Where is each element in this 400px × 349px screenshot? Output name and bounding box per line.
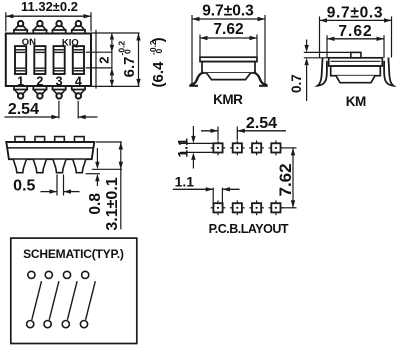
solder tip level line [86, 173, 100, 175]
PCB row pitch extension bottom [281, 207, 297, 209]
side view lead 3 [53, 160, 66, 173]
side view lid seam line [7, 147, 93, 149]
dimension line for 6.7 [138, 33, 140, 86]
switch symbol 1 bottom contact [27, 321, 34, 328]
svg-text:11.32±0.2: 11.32±0.2 [21, 0, 78, 14]
KMR extension line right of 7.62 [256, 34, 258, 56]
PCB pad row 2 position 2 [236, 200, 238, 215]
KM cover cap [329, 58, 383, 66]
extension line right of 11.32 [90, 12, 92, 31]
svg-text:7.62: 7.62 [338, 23, 372, 40]
svg-text:2: 2 [96, 57, 111, 64]
KM cap inner seam line [331, 60, 381, 62]
PCB pad height line bottom [180, 151, 213, 153]
PCB pad row 1 position 1 [217, 141, 219, 156]
KMR left extension line / foot edge [191, 15, 193, 84]
PCB pad row 2 position 3 [256, 200, 258, 215]
KMR extension line left of 7.62 [199, 34, 201, 56]
side view actuator knob 4 [75, 137, 85, 142]
KMR dimension line 7.62 [200, 37, 257, 39]
svg-text:2.54: 2.54 [8, 101, 39, 118]
switch symbol 1 top contact [28, 271, 35, 278]
extension line below pin 4 [77, 101, 79, 119]
dimension line 0.7 lower arrow [306, 65, 308, 101]
pin 3 bottom lead [53, 86, 66, 89]
side view body outline [6, 142, 94, 159]
side view body top extension line [96, 141, 122, 143]
slider actuator 2 [34, 46, 45, 74]
PCB pad row 1 position 3 [256, 141, 258, 156]
PCB dimension line 1.1 horizontal [173, 188, 213, 190]
svg-text:9.7±0.3: 9.7±0.3 [202, 2, 254, 19]
svg-text:3: 3 [56, 75, 63, 89]
switch symbol 3 bottom contact [62, 321, 69, 328]
svg-text:0.8: 0.8 [87, 193, 104, 215]
switch symbol 2 bottom contact [44, 321, 51, 328]
KM bottom chamfer [336, 76, 375, 83]
KM left J-lead [318, 58, 327, 86]
extension line left of lead tip [56, 175, 58, 196]
PCB extension above pad 1 [217, 127, 219, 141]
svg-text:4: 4 [75, 75, 82, 89]
extension line left of 11.32 [5, 12, 7, 31]
KMR left foot [189, 85, 198, 87]
KM body [331, 66, 381, 76]
pin 4 bottom lead [72, 86, 85, 89]
KM left extension line [319, 16, 321, 57]
svg-text:SCHEMATIC(TYP.): SCHEMATIC(TYP.) [23, 247, 124, 261]
KM dimension line 7.62 [327, 38, 384, 40]
KMR cover cap [200, 57, 257, 61]
slider bottom level line [86, 67, 112, 69]
svg-text:2: 2 [36, 75, 43, 89]
PCB dimension 1.1 vertical arrows [192, 126, 194, 136]
pin 4 top lead [72, 30, 85, 33]
KMR right gull-wing lead [255, 73, 267, 85]
PCB extension line pad right [221, 188, 223, 206]
PCB extension line pad left [212, 188, 214, 206]
extension line right of lead tip [63, 175, 65, 196]
switch symbol 4 lever [86, 281, 96, 320]
side view lead 2 [33, 160, 46, 173]
side view lead 4 [73, 160, 86, 173]
vertical extension line near body right edge [95, 30, 97, 89]
KM right extension line [391, 16, 393, 57]
PCB dimension line 7.62 vertical [292, 148, 294, 208]
switch symbol 4 top contact [82, 271, 89, 278]
extension line below pin 3 [58, 101, 60, 119]
body top extension to right [91, 32, 140, 34]
switch body outline (top view) [6, 34, 91, 87]
KM cap top level line [304, 57, 329, 59]
PCB pad row 2 position 4 [275, 200, 277, 215]
PCB pad row 1 position 4 [275, 141, 277, 156]
KMR left gull-wing lead [191, 73, 203, 85]
dimension line 0.5 [41, 191, 58, 193]
body bottom extension to right [91, 85, 140, 87]
dimension line 3.1±0.1 [120, 142, 122, 229]
KMR bottom chamfer [207, 73, 251, 80]
svg-text:0.7: 0.7 [289, 74, 304, 93]
switch symbol 2 top contact [45, 271, 52, 278]
side view actuator knob 2 [35, 137, 45, 142]
switch symbol 3 top contact [63, 271, 70, 278]
pin 2 top lead [33, 30, 46, 33]
svg-text:(6.4: (6.4 [150, 61, 167, 88]
PCB row pitch extension top [281, 147, 297, 149]
slider actuator 1 [15, 46, 26, 74]
svg-text:7.62: 7.62 [276, 163, 295, 196]
switch symbol 1 lever [32, 281, 42, 320]
slider actuator 3 [54, 46, 65, 74]
KM actuator knob on top [351, 52, 361, 57]
switch symbol 3 lever [67, 281, 77, 320]
PCB extension above pad 2 [236, 127, 238, 141]
switch symbol 2 lever [49, 281, 59, 320]
slider top level line [86, 51, 112, 53]
KM extension line left of 7.62 [326, 35, 328, 58]
dimension line for 2 (slider travel) [111, 33, 113, 86]
KMR dimension line 9.7 [192, 18, 265, 20]
pin 1 bottom lead [14, 86, 27, 89]
dimension 0.8 lower arrow [96, 181, 98, 186]
KM right J-lead [384, 58, 393, 86]
svg-text:1.1: 1.1 [175, 173, 195, 189]
svg-text:3.1±0.1: 3.1±0.1 [104, 177, 121, 230]
svg-text:P.C.B.LAYOUT: P.C.B.LAYOUT [209, 222, 289, 236]
svg-text:1: 1 [17, 75, 24, 89]
side view lead 1 [13, 160, 26, 173]
PCB pad row 1 position 2 [236, 141, 238, 156]
svg-text:9.7±0.3: 9.7±0.3 [327, 5, 384, 22]
KM dimension line 9.7 [320, 19, 392, 21]
pin 1 top lead [14, 30, 27, 33]
dimension 0.8 upper arrow [96, 148, 98, 162]
svg-text:): ) [150, 37, 167, 42]
switch symbol 4 bottom contact [80, 321, 87, 328]
KMR right extension line / foot edge [264, 15, 266, 84]
KM knob top level line [304, 51, 351, 53]
svg-text:2.54: 2.54 [246, 115, 277, 132]
KMR body [202, 62, 255, 73]
svg-text:6.7: 6.7 [121, 57, 138, 78]
dimension line 0.7 upper arrow [306, 40, 308, 46]
lead tip level line [92, 168, 122, 170]
PCB pad height line top [180, 142, 213, 144]
side view actuator knob 1 [15, 137, 25, 142]
svg-text:1.1: 1.1 [174, 138, 190, 158]
svg-text:KM: KM [346, 94, 366, 109]
KM extension line right of 7.62 [383, 35, 385, 58]
svg-text:KMR: KMR [213, 92, 243, 107]
dimension line 2.54 [5, 116, 59, 118]
svg-text:7.62: 7.62 [213, 21, 243, 38]
svg-text:-0.2: -0.2 [116, 41, 126, 56]
schematic border box [11, 238, 137, 343]
slider actuator 4 [73, 46, 84, 74]
PCB pad row 2 position 1 [217, 200, 219, 215]
svg-text:0.5: 0.5 [13, 177, 35, 194]
PCB dimension line 2.54 [201, 130, 218, 132]
side view actuator knob 3 [55, 137, 65, 142]
pin 3 top lead [53, 30, 66, 33]
dimension line 11.32 [6, 15, 91, 17]
KMR right foot [259, 85, 268, 87]
pin 2 bottom lead [33, 86, 46, 89]
